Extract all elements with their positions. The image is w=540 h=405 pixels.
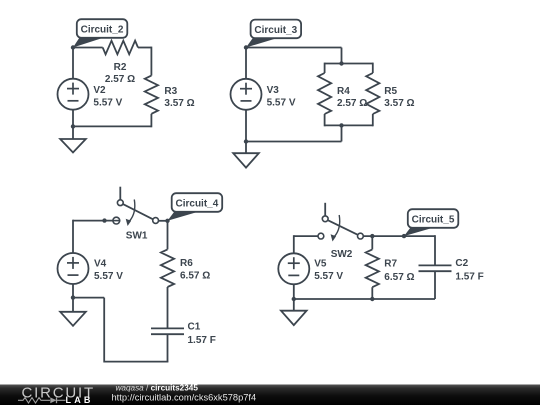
wire R4 top lead (324, 63, 326, 73)
switch SW2 left terminal circle (318, 233, 324, 239)
svg-text:Circuit_2: Circuit_2 (81, 24, 124, 35)
value label V2 (93, 85, 122, 108)
svg-text:5.57 V: 5.57 V (94, 271, 123, 282)
wire left rail lower (72, 110, 74, 127)
svg-text:V5: V5 (314, 259, 327, 270)
svg-text:R3: R3 (164, 86, 177, 97)
CircuitLab logo wordmark CIRCUIT (22, 384, 95, 401)
label tag Circuit_2 (73, 19, 127, 47)
label tag Circuit_3 (246, 20, 301, 48)
node dot V4 bottom (71, 295, 75, 299)
label tag Circuit_4 (168, 193, 223, 221)
switch SW2 open throw stub (324, 203, 326, 216)
ground (281, 311, 307, 325)
svg-text:Circuit_4: Circuit_4 (176, 198, 219, 209)
svg-text:R7: R7 (384, 259, 397, 270)
wire C1 down (167, 334, 169, 361)
svg-text:3.57 Ω: 3.57 Ω (384, 98, 414, 109)
CircuitLab logo resistor-diode squiggle (18, 397, 66, 403)
value label SW2 (331, 249, 353, 260)
svg-text:5.57 V: 5.57 V (314, 271, 343, 282)
wire node to R6 (167, 221, 169, 250)
resistor R3 (145, 76, 158, 114)
svg-text:1.57 F: 1.57 F (188, 335, 216, 346)
svg-text:V3: V3 (267, 85, 280, 96)
svg-text:Circuit_5: Circuit_5 (412, 214, 455, 225)
switch SW2 right terminal circle (358, 233, 364, 239)
ground (60, 312, 86, 326)
wire drop from parallel bottom (341, 125, 343, 141)
svg-text:SW1: SW1 (126, 231, 148, 242)
label tag Circuit_5 (404, 209, 458, 236)
resistor R5 (366, 73, 379, 114)
switch SW1 right terminal circle (153, 218, 159, 224)
wire bottom rail (246, 141, 342, 143)
svg-text:LAB: LAB (66, 395, 94, 405)
footer url line (112, 392, 257, 402)
wire R5 top lead (372, 63, 374, 73)
wire R2 to top-right corner (138, 47, 151, 49)
node dot top-left (244, 45, 248, 49)
wire R6 to C1 (167, 287, 169, 328)
voltage source V4 (58, 253, 89, 284)
ground stub (72, 298, 74, 312)
value label C1 (188, 322, 216, 346)
capacitor C1 (151, 328, 184, 334)
voltage source V2 (58, 79, 89, 110)
wire C2 bottom lead (434, 271, 436, 299)
wire V5 top lead (293, 235, 295, 253)
ground stub (293, 299, 295, 311)
voltage source V3 (231, 79, 262, 110)
switch SW1 arm (123, 204, 153, 219)
wire V4 top to switch (73, 220, 120, 222)
svg-text:SW2: SW2 (331, 249, 353, 260)
node dot label attach (402, 234, 406, 238)
svg-text:6.57 Ω: 6.57 Ω (384, 272, 414, 283)
node dot parallel bottom (339, 123, 343, 127)
value label R6 (180, 258, 210, 282)
svg-text:Circuit_3: Circuit_3 (254, 25, 297, 36)
wire parallel bottom rail (325, 124, 373, 126)
voltage source V5 (278, 253, 309, 284)
switch SW2 arm (328, 220, 358, 235)
svg-text:5.57 V: 5.57 V (93, 97, 122, 108)
wire R4 bottom lead (324, 114, 326, 126)
svg-text:2.57 Ω: 2.57 Ω (337, 98, 367, 109)
node dot bottom-left (244, 139, 248, 143)
wire bottom rail (73, 125, 151, 127)
svg-text:1.57 F: 1.57 F (455, 272, 483, 283)
value label V4 (94, 259, 123, 283)
wire bottom rail (294, 298, 435, 300)
wire node to riser (73, 297, 104, 299)
wire V4 bottom lead (72, 284, 74, 298)
value label R3 (164, 86, 194, 109)
svg-text:http://circuitlab.com/cks6xk57: http://circuitlab.com/cks6xk578p7f4 (112, 392, 257, 402)
svg-text:waqasa / circuits2345: waqasa / circuits2345 (116, 383, 199, 392)
resistor R4 (318, 73, 331, 114)
wire top from node to R2 (73, 47, 103, 49)
node dot V5 bottom (292, 297, 296, 301)
switch SW2 top terminal circle (322, 216, 328, 222)
wire V5 bottom lead (293, 284, 295, 299)
value label R7 (384, 259, 414, 284)
node A (top-left) dot (71, 45, 75, 49)
svg-text:V2: V2 (93, 85, 106, 96)
svg-text:R4: R4 (337, 86, 350, 97)
wire C2 top lead (434, 235, 436, 265)
node dot R7 bottom (370, 297, 374, 301)
wire left rail lower (245, 110, 247, 142)
switch SW2 actuation arrow (331, 215, 340, 242)
ground (233, 153, 259, 167)
wire right rail lower (150, 114, 152, 128)
wire R7 bottom lead (371, 287, 373, 299)
svg-text:C2: C2 (455, 258, 468, 269)
wire right rail upper (150, 47, 152, 76)
svg-text:3.57 Ω: 3.57 Ω (164, 98, 194, 109)
wire drop to parallel top (341, 48, 343, 64)
CircuitLab logo wordmark LAB (66, 395, 94, 405)
wire switch to node (159, 220, 168, 222)
value label R2 (105, 62, 135, 85)
node dot under label (165, 219, 169, 223)
resistor R7 (366, 249, 379, 287)
wire left rail upper (72, 48, 74, 79)
wire bottom rail (104, 361, 168, 363)
node dot on switch feed (102, 218, 106, 222)
svg-text:5.57 V: 5.57 V (267, 97, 296, 108)
node junction dot bottom-left (71, 124, 75, 128)
resistor R2 (103, 41, 138, 55)
wire parallel top rail (325, 63, 373, 65)
wire left rail upper (245, 48, 247, 79)
svg-text:2.57 Ω: 2.57 Ω (105, 74, 135, 85)
value label V3 (267, 85, 296, 108)
footer attribution line (116, 383, 199, 392)
wire bottom riser (103, 298, 105, 363)
svg-text:R2: R2 (114, 62, 127, 73)
switch SW1 open throw stub (119, 187, 121, 200)
wire V5 top to switch (294, 235, 318, 237)
switch SW1 top terminal circle (117, 200, 123, 206)
value label SW1 (126, 231, 148, 242)
svg-text:C1: C1 (188, 322, 201, 333)
wire V4 top lead (72, 220, 74, 253)
wire switch to R7 node (363, 235, 435, 237)
svg-text:6.57 Ω: 6.57 Ω (180, 271, 210, 282)
value label V5 (314, 259, 343, 283)
wire R5 bottom lead (372, 114, 374, 126)
wire R7 top lead (371, 236, 373, 249)
svg-text:V4: V4 (94, 259, 107, 270)
ground (60, 139, 86, 153)
value label R5 (384, 86, 414, 109)
svg-text:R5: R5 (384, 86, 397, 97)
wire top rail (246, 47, 342, 49)
resistor R6 (161, 249, 174, 287)
value label R4 (337, 86, 367, 109)
value label C2 (455, 258, 483, 282)
capacitor C2 (419, 265, 452, 271)
svg-text:R6: R6 (180, 258, 193, 269)
ground stub (245, 142, 247, 154)
ground stub (72, 126, 74, 139)
node dot R7 top (370, 234, 374, 238)
switch SW1 left terminal circle (113, 217, 120, 224)
node dot parallel top (339, 61, 343, 65)
switch SW1 actuation arrow (126, 200, 135, 227)
